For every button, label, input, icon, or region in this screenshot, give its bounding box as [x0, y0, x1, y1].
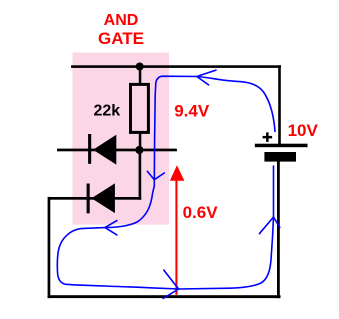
wire right rail lower	[277, 162, 280, 299]
blue current loop path	[57, 76, 275, 289]
diode D1 triangle	[93, 135, 116, 165]
AND gate region highlight	[73, 53, 170, 225]
diode D2 triangle	[92, 183, 115, 213]
battery plus sign	[263, 136, 273, 139]
svg-text:9.4V: 9.4V	[174, 101, 210, 120]
blue arrowhead right rail (points up)	[259, 217, 279, 234]
battery B1 top plate (+)	[255, 144, 308, 148]
wire diode D2 row	[48, 197, 141, 200]
blue arrowhead bottom rail (points right)	[163, 270, 179, 298]
red measurement arrow head	[170, 165, 185, 181]
wire right rail upper	[278, 65, 281, 144]
wire bottom rail	[48, 295, 281, 298]
battery B1 bottom plate (-)	[264, 152, 296, 162]
blue arrowhead beside resistor (points down)	[147, 171, 164, 179]
diode D1 cathode bar	[88, 134, 91, 164]
wire top rail	[71, 65, 281, 68]
red measurement arrow stem	[175, 181, 177, 295]
blue arrowhead top (points left)	[197, 70, 216, 85]
wire resistor to node	[139, 133, 142, 151]
blue arrowhead below diodes (points left)	[105, 221, 117, 235]
wire diode D1 row	[57, 149, 177, 152]
diode D2 cathode bar	[87, 184, 90, 214]
node junction dot top	[136, 63, 144, 71]
wire left rail	[48, 197, 51, 298]
wire D2 to node (vertical connector)	[139, 149, 142, 200]
svg-text:22k: 22k	[94, 103, 121, 120]
svg-text:0.6V: 0.6V	[183, 203, 219, 222]
svg-text:GATE: GATE	[98, 29, 144, 48]
node junction dot diode row	[135, 146, 143, 154]
svg-text:AND: AND	[104, 12, 139, 29]
wire top rail to resistor	[139, 66, 142, 84]
svg-text:10V: 10V	[288, 121, 319, 140]
resistor R1 22k	[131, 84, 149, 132]
